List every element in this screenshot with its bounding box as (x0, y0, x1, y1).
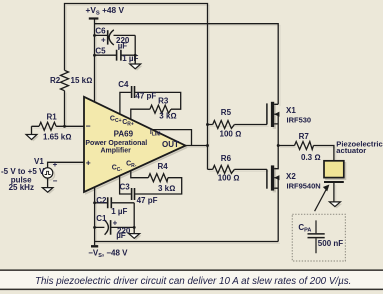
node source output junction (277, 144, 280, 147)
svg-text:IRF9540N: IRF9540N (287, 182, 321, 191)
node op-amp out / R5 junction (206, 123, 209, 126)
resistor R5 (213, 121, 235, 129)
wire actuator ground stub (333, 183, 335, 202)
svg-text:R5: R5 (221, 108, 232, 117)
transistor X1 IRF530 (266, 103, 268, 124)
wire comp bottom box (120, 171, 182, 194)
wire comp top box (120, 92, 181, 119)
capacitor C3 (132, 188, 135, 200)
wire +48V rail (95, 18, 279, 104)
wire noninverting input (48, 162, 84, 167)
wire output node to R7 (278, 146, 334, 161)
wire X1 connections (274, 104, 278, 145)
svg-text:This piezoelectric driver circ: This piezoelectric driver circuit can de… (35, 276, 351, 287)
svg-text:V1: V1 (34, 157, 44, 166)
svg-text:R7: R7 (299, 132, 310, 141)
svg-text:µF: µF (118, 41, 128, 50)
ground (top decoupling) (134, 55, 136, 64)
node -Vs / C1 junction (93, 226, 96, 229)
node op-amp out junction (206, 144, 209, 147)
svg-text:X2: X2 (286, 172, 296, 181)
svg-text:C1: C1 (96, 214, 107, 223)
svg-text:R3: R3 (158, 96, 169, 105)
svg-text:3 kΩ: 3 kΩ (158, 184, 175, 193)
svg-text:R6: R6 (221, 154, 232, 163)
transistor X2 IRF9540N (266, 169, 268, 188)
wire R5 (208, 124, 267, 126)
arrow CPA to actuator (315, 190, 326, 211)
piezoelectric actuator (324, 161, 344, 178)
svg-text:47 pF: 47 pF (135, 91, 156, 100)
node -Vs / C2 junction (93, 201, 96, 204)
capacitor C6 (107, 30, 109, 44)
svg-text:C4: C4 (118, 80, 129, 89)
source V1 (42, 168, 52, 178)
svg-text:100 Ω: 100 Ω (220, 130, 242, 139)
svg-text:PA69: PA69 (114, 129, 134, 138)
wire V1 ground stub (47, 178, 49, 188)
svg-text:actuator: actuator (336, 146, 366, 155)
supply +Vs terminal (89, 17, 99, 19)
svg-text:R2: R2 (50, 76, 61, 85)
node inverting input junction (63, 125, 66, 128)
svg-text:OUT: OUT (162, 140, 179, 149)
svg-text:C3: C3 (120, 183, 131, 192)
resistor R7 (295, 142, 314, 150)
svg-text:−: − (86, 121, 91, 131)
capacitor C2 (108, 197, 112, 208)
resistor R2 (61, 70, 69, 90)
svg-text:47 pF: 47 pF (137, 196, 158, 205)
svg-text:3 kΩ: 3 kΩ (159, 112, 176, 121)
wire C1 branch (95, 203, 135, 234)
wire C6 branch (95, 34, 136, 36)
svg-text:Power Operational: Power Operational (85, 140, 147, 147)
node C1 / ground junction (133, 226, 136, 229)
svg-text:µF: µF (116, 231, 126, 240)
ground (inverting input) (26, 135, 37, 140)
svg-text:1.65 kΩ: 1.65 kΩ (43, 132, 71, 141)
wire C5 branch (95, 35, 136, 64)
node +Vs / C6 junction (93, 34, 96, 37)
svg-text:−VS, −48 V: −VS, −48 V (88, 249, 128, 260)
caption bar (0, 271, 383, 289)
svg-text:1 µF: 1 µF (111, 207, 127, 216)
node +Vs / C5 junction (93, 54, 96, 57)
svg-text:25 kHz: 25 kHz (9, 183, 34, 192)
svg-text:+: + (53, 160, 58, 169)
wire Ilim stub (153, 130, 192, 146)
capacitor CPA in dashed box (292, 214, 345, 261)
op-amp U1 PA69 (84, 97, 186, 192)
svg-text:100 Ω: 100 Ω (218, 174, 240, 183)
wire R2 bottom (64, 91, 66, 127)
svg-text:X1: X1 (286, 106, 296, 115)
svg-text:R4: R4 (158, 162, 169, 171)
svg-text:0.3 Ω: 0.3 Ω (301, 153, 321, 162)
svg-text:+: + (86, 157, 91, 167)
svg-text:C5: C5 (95, 47, 106, 56)
svg-text:Amplifier: Amplifier (101, 147, 132, 154)
resistor R3 (150, 105, 171, 113)
wire feedback rail top (65, 4, 208, 170)
capacitor C4 (132, 86, 135, 98)
wire X2 connections (274, 146, 278, 242)
supply -Vs terminal (91, 245, 98, 247)
ground (V1) (42, 188, 53, 193)
wire R6 (208, 168, 267, 170)
ground (bottom decoupling) (129, 234, 140, 239)
shadow layer (28, 5, 346, 247)
svg-text:15 kΩ: 15 kΩ (71, 76, 93, 85)
wire C2 branch (95, 202, 135, 204)
svg-text:C2: C2 (96, 196, 107, 205)
ground (actuator) (329, 202, 340, 207)
resistor R1 (39, 122, 56, 130)
svg-text:−: − (53, 177, 58, 186)
capacitor C1 (105, 220, 109, 235)
wire inverting input (32, 126, 85, 134)
svg-text:R1: R1 (47, 113, 58, 122)
main wires (32, 4, 334, 246)
resistor R4 (148, 174, 168, 182)
svg-text:500 nF: 500 nF (318, 239, 343, 248)
svg-text:+VS +48 V: +VS +48 V (86, 5, 125, 17)
svg-text:+: + (101, 36, 106, 45)
svg-text:IRF530: IRF530 (287, 116, 312, 125)
wire -48V rail (95, 187, 279, 245)
capacitor C5 (117, 50, 121, 61)
wire op-amp out (186, 145, 208, 147)
node C5 / ground junction (134, 54, 137, 57)
resistor R6 (213, 165, 235, 173)
svg-text:C6: C6 (95, 27, 106, 36)
